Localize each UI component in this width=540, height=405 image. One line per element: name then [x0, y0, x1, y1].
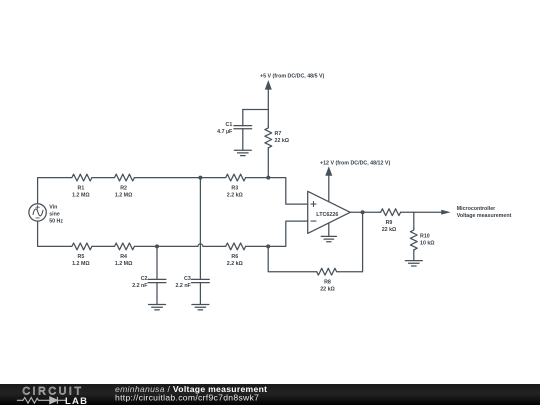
capacitor C2	[148, 246, 166, 304]
wire R9 to R10 tap	[401, 211, 441, 213]
wire top rail from Vin to R1	[38, 178, 70, 204]
svg-text:2.2 kΩ: 2.2 kΩ	[227, 192, 244, 198]
wire R7 to node B	[267, 148, 269, 178]
label R3	[227, 185, 244, 198]
svg-text:R2: R2	[120, 185, 127, 191]
svg-text:22 kΩ: 22 kΩ	[275, 138, 290, 144]
wire C1 branch from +5V rail	[243, 109, 268, 111]
svg-text:R3: R3	[231, 185, 238, 191]
wire R6 to inverting node	[246, 245, 269, 247]
svg-text:1.2 MΩ: 1.2 MΩ	[115, 192, 133, 198]
logo CIRCUIT text	[22, 385, 83, 397]
svg-text:2.2 nF: 2.2 nF	[132, 283, 148, 289]
label op-amp LTC6226	[316, 212, 338, 218]
svg-text:2.2 nF: 2.2 nF	[175, 283, 191, 289]
label R6	[227, 254, 244, 267]
output arrow to microcontroller	[441, 210, 451, 215]
label R10	[420, 234, 435, 247]
wire R4 to C2 node	[134, 245, 157, 247]
svg-text:R5: R5	[78, 254, 85, 260]
ground below C3	[192, 305, 209, 310]
svg-text:1.2 MΩ: 1.2 MΩ	[115, 261, 133, 267]
svg-text:4.7 µF: 4.7 µF	[217, 129, 233, 135]
wire bottom rail Vin to R5	[38, 221, 70, 246]
resistor R4	[113, 243, 135, 250]
label R2	[115, 185, 133, 198]
svg-text:R10: R10	[420, 234, 430, 240]
logo resistor-diode squiggle	[17, 397, 67, 404]
wire node B to op-amp non-inverting input	[268, 178, 307, 205]
capacitor C1	[234, 110, 252, 151]
resistor R9	[379, 209, 401, 216]
wire R10 to ground	[413, 250, 415, 261]
wire between R5 and R4	[92, 245, 113, 247]
resistor R1	[70, 174, 92, 181]
wire tap down to R10	[413, 212, 415, 228]
svg-text:Microcontroller: Microcontroller	[457, 206, 496, 212]
junction dot at C2	[155, 244, 159, 248]
label Microcontroller output	[457, 206, 512, 219]
ground below C2	[149, 305, 166, 310]
wire R8 to inverting node	[268, 246, 317, 271]
label C2	[132, 276, 148, 289]
svg-text:LTC6226: LTC6226	[316, 212, 338, 218]
resistor R7	[265, 126, 272, 148]
svg-text:+12 V (from DC/DC, 48/12 V): +12 V (from DC/DC, 48/12 V)	[320, 161, 390, 167]
wire R3 to node B	[246, 177, 269, 179]
svg-text:Vin: Vin	[49, 205, 57, 211]
label C1	[217, 122, 233, 135]
wire C2 node to hop, hop over C3 branch, to R6	[157, 244, 224, 247]
label R7	[275, 131, 290, 144]
wire node A down to C3 (crosses bottom rail under hop)	[199, 178, 201, 280]
svg-text:10 kΩ: 10 kΩ	[420, 241, 435, 247]
svg-text:R9: R9	[386, 220, 393, 226]
label R8	[320, 279, 335, 292]
svg-text:R7: R7	[275, 131, 282, 137]
op-amp V- pin wire to ground	[328, 223, 330, 236]
capacitor C3	[192, 279, 210, 304]
svg-text:http://circuitlab.com/crf9c7dn: http://circuitlab.com/crf9c7dn8swk7	[115, 393, 259, 403]
resistor R2	[113, 174, 135, 181]
output node junction dot	[361, 210, 365, 214]
op-amp U1 LTC6226	[308, 191, 351, 233]
svg-text:R6: R6	[231, 254, 238, 260]
svg-text:50 Hz: 50 Hz	[49, 219, 63, 225]
footer title line	[115, 384, 267, 403]
svg-text:Voltage measurement: Voltage measurement	[457, 213, 512, 219]
svg-text:sine: sine	[49, 212, 60, 218]
label R4	[115, 254, 133, 267]
label R1	[72, 185, 90, 198]
svg-text:2.2 kΩ: 2.2 kΩ	[227, 261, 244, 267]
svg-text:C1: C1	[226, 122, 233, 128]
logo LAB text	[65, 396, 88, 405]
inverting node junction dot	[266, 244, 270, 248]
svg-text:1.2 MΩ: 1.2 MΩ	[72, 261, 90, 267]
wire output node to R9	[363, 211, 379, 213]
resistor R5	[70, 243, 92, 250]
svg-text:R4: R4	[120, 254, 127, 260]
node A junction dot	[198, 176, 202, 180]
footer black bar	[0, 384, 540, 405]
label R5	[72, 254, 90, 267]
svg-text:C3: C3	[184, 276, 191, 282]
voltage source Vin	[29, 204, 46, 221]
wire between R1 and R2	[92, 177, 113, 179]
ground below C1	[234, 150, 251, 155]
wire node A to R3	[200, 177, 224, 179]
resistor R6	[224, 243, 246, 250]
label R9	[382, 220, 397, 233]
svg-text:LAB: LAB	[65, 396, 88, 405]
wire op-amp output to output node	[350, 211, 362, 213]
resistor R3	[224, 174, 246, 181]
label +5V net	[260, 73, 325, 79]
svg-text:22 kΩ: 22 kΩ	[382, 227, 397, 233]
resistor R8	[317, 268, 339, 275]
ground below R10	[405, 261, 422, 266]
svg-text:22 kΩ: 22 kΩ	[320, 286, 335, 292]
wire R2 to node A	[134, 177, 200, 179]
svg-text:1.2 MΩ: 1.2 MΩ	[72, 192, 90, 198]
label +12V net	[320, 161, 390, 167]
svg-text:C2: C2	[141, 276, 148, 282]
node B junction dot	[266, 176, 270, 180]
label Vin value	[49, 205, 63, 225]
wire feedback: output node down to R8	[338, 212, 362, 272]
svg-text:R1: R1	[78, 185, 85, 191]
label C3	[175, 276, 191, 289]
+12V supply arrow	[325, 166, 332, 201]
wire inverting node to op-amp inverting input	[268, 221, 308, 246]
resistor R10	[410, 228, 417, 250]
+5V supply arrow	[265, 80, 272, 126]
ground below op-amp	[321, 236, 336, 241]
svg-text:+5 V (from DC/DC, 48/5 V): +5 V (from DC/DC, 48/5 V)	[260, 73, 325, 79]
svg-text:R8: R8	[324, 279, 331, 285]
